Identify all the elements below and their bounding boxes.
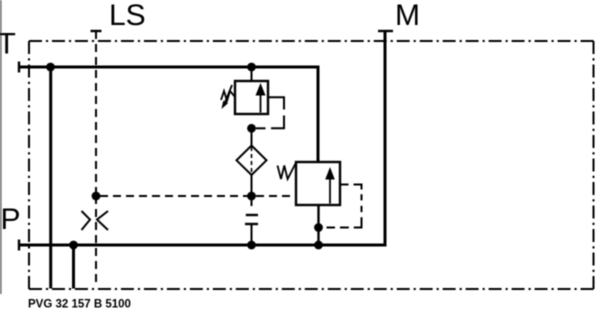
wire: T down-leg to boundary [49,67,52,289]
junction dot under V1 [247,124,256,133]
relief valve V1 spring (adjustable) [221,85,236,109]
relief valve V2 flow arrow [325,167,335,204]
plugged connection (blocked line to P) [245,196,258,245]
svg-text:T: T [0,28,16,61]
wire: V1 to filter [251,128,253,146]
wire: M vertical line [384,31,387,247]
wire: P line (bottom horizontal) [19,244,385,247]
junction dot P line / down-leg [69,241,78,250]
scan artifact left edge bar [0,0,2,294]
port label M [395,0,420,32]
junction dot T line / V1 [247,63,256,72]
junction dot LS net under filter [247,192,256,201]
wire: T line (top horizontal) with corner down to valve V2 [19,67,318,162]
junction dot P line / plug leg [247,241,256,250]
enclosure boundary left edge (dash-dot) [28,41,30,289]
relief valve V2 spring [278,163,297,180]
relief valve V1 flow arrow [256,83,266,113]
port M tick [378,30,393,32]
relief valve V1 body [235,81,268,114]
port T tick [18,62,20,73]
wire: P down-leg to boundary [72,245,75,289]
enclosure boundary top edge (dash-dot) [29,40,594,42]
wire: V1 top connection [251,67,253,81]
svg-text:M: M [395,0,420,32]
pilot line LS vertical (dashed, lower) [95,196,97,287]
pilot line of V2 (dashed loop to downstream) [327,185,362,228]
pilot line LS vertical (dashed, upper) [95,31,97,196]
junction dot T/tank leg [46,63,55,72]
port LS tick [91,30,102,32]
port label T [0,28,16,61]
pilot line LS horizontal (dashed, LS net to V2 spring side) [96,195,296,197]
port label P [1,203,21,236]
svg-text:P: P [1,203,21,236]
wire: filter to LS net junction [251,175,253,196]
junction dot V2 pilot [314,223,323,232]
orifice O1 on LS line [82,211,109,230]
svg-text:LS: LS [109,0,146,32]
enclosure boundary bottom edge (dash-dot) [29,288,594,290]
enclosure boundary right edge (dash-dot) [593,41,595,289]
svg-text:PVG 32 157 B 5100: PVG 32 157 B 5100 [28,299,131,311]
port P tick [18,240,20,251]
type code label [28,299,131,311]
port label LS [109,0,146,32]
filter F1 (diamond) [237,146,267,176]
relief valve V2 body [296,162,340,205]
pilot line of V1 (dashed loop to downstream) [256,97,284,128]
junction dot LS net at LS line [92,192,101,201]
junction dot V2 at P line [314,241,323,250]
wire: V2 bottom to P line [317,205,319,245]
